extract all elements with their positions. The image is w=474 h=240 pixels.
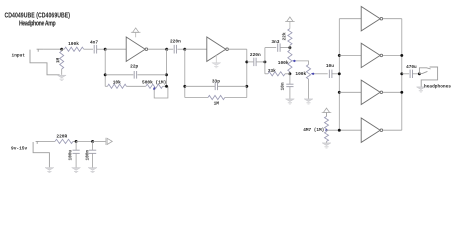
node obus U4 <box>400 54 403 57</box>
ground under C11 <box>88 168 97 173</box>
capacitor C3 220n <box>174 45 176 54</box>
wire U6 out <box>383 129 402 131</box>
label 220n (C3) <box>170 39 181 45</box>
wire bus to U5 <box>339 91 361 93</box>
label 100n (C11) <box>86 150 91 161</box>
node A <box>60 48 63 51</box>
svg-text:33k: 33k <box>268 68 276 74</box>
ground below U2 <box>212 55 221 68</box>
wire node D down <box>184 49 186 97</box>
capacitor C5 220n <box>254 58 256 66</box>
wire 1M branch left <box>185 97 208 99</box>
node obus U5 <box>400 91 403 94</box>
title line 2 <box>19 20 56 28</box>
label 4n7 (C1) <box>90 40 98 46</box>
capacitor C1 4n7 <box>94 45 96 54</box>
label 10k (R3) <box>113 80 121 86</box>
label 22k (R5) <box>283 32 288 40</box>
wire bus to U4 <box>339 54 361 56</box>
svg-text:100k: 100k <box>295 71 306 77</box>
wire 22p branch right <box>137 74 166 76</box>
svg-text:10n: 10n <box>281 82 286 90</box>
node obus out <box>400 72 403 75</box>
label 100u (C10) <box>69 150 74 161</box>
ground under R8 <box>322 143 331 148</box>
svg-text:470u: 470u <box>406 65 417 70</box>
op-amp U4 inverter <box>361 43 382 67</box>
wire R2 to C1 <box>84 48 93 50</box>
ground under VR3 <box>304 99 313 104</box>
svg-text:CD4049UBE (CD4069UBE): CD4049UBE (CD4069UBE) <box>5 12 71 20</box>
wire obus to C9 <box>402 73 409 75</box>
svg-text:220n: 220n <box>170 39 181 45</box>
wire U4 out <box>383 54 402 56</box>
resistor R5 22k vertical <box>288 29 292 48</box>
label 470u (C9) <box>406 65 417 70</box>
wire U5 out <box>383 91 402 93</box>
op-amp U2 inverter <box>207 37 229 61</box>
svg-text:100k: 100k <box>68 41 79 47</box>
label 220R (R9) <box>56 134 67 140</box>
ground under J3 <box>417 87 426 92</box>
label 4M7 (1M) <box>303 128 324 133</box>
wire C6 to node H <box>280 47 290 49</box>
label 220n (C5) <box>250 52 261 58</box>
capacitor C2 22p <box>134 71 136 79</box>
wire VR1 wiper loop <box>154 86 168 98</box>
svg-text:1M: 1M <box>214 101 220 107</box>
node E2 <box>245 85 248 88</box>
label 100k (VR3) <box>295 71 306 77</box>
capacitor C10 100u vertical <box>73 141 80 167</box>
wire 1M branch right <box>225 97 247 99</box>
wire C9 to node K <box>413 73 420 75</box>
wire node J to input bus <box>327 129 362 131</box>
svg-text:220R: 220R <box>56 134 67 140</box>
wire node C to C3 <box>167 48 174 50</box>
wire U2 output <box>229 48 247 50</box>
svg-text:220n: 220n <box>250 52 261 58</box>
svg-text:500k (1M): 500k (1M) <box>142 80 166 86</box>
label 33p (C4) <box>212 78 220 84</box>
node C3 <box>165 85 168 88</box>
capacitor C4 33p <box>215 83 217 91</box>
VR1 wiper arrow <box>153 87 156 91</box>
wire node F to C5 <box>247 61 254 63</box>
wire U3 out <box>383 18 402 20</box>
resistor R8 4M7 lower <box>325 130 329 143</box>
label 500k (1M) (VR1) <box>142 80 166 86</box>
svg-text:33p: 33p <box>212 78 220 84</box>
potentiometer VR1 500k <box>146 84 167 88</box>
node C <box>165 48 168 51</box>
node B <box>104 48 107 51</box>
wire C3 to node D <box>177 48 184 50</box>
wire node M to V+ arrow <box>93 140 106 142</box>
svg-text:100n: 100n <box>86 150 91 161</box>
svg-text:10u: 10u <box>326 63 334 69</box>
label 22p (C2) <box>130 64 138 70</box>
wire 22p branch left <box>105 74 133 76</box>
wire C1 to node B <box>97 48 106 50</box>
wire bus to U3 <box>339 18 361 20</box>
label 100k (R2) <box>68 41 79 47</box>
node B2 <box>104 73 107 76</box>
svg-text:4n7: 4n7 <box>90 40 98 46</box>
node D <box>183 48 186 51</box>
V+ arrow above U1 <box>131 28 141 37</box>
svg-text:100u: 100u <box>69 150 74 161</box>
node H <box>288 46 291 49</box>
wire node D to U2 input <box>185 48 207 50</box>
op-amp U6 inverter <box>361 118 382 142</box>
node G <box>263 60 266 63</box>
wire C5 to node G <box>256 61 265 63</box>
wire 33p branch left <box>185 85 215 87</box>
ground under R1 <box>57 75 66 80</box>
label 100k (VR2) <box>278 60 289 66</box>
wire node G vertical <box>264 48 266 74</box>
input jack J1 <box>30 49 60 75</box>
wire U2 out down <box>246 49 248 97</box>
node L <box>75 140 78 143</box>
svg-text:Headphone Amp: Headphone Amp <box>19 20 56 28</box>
resistor R4 1M <box>208 95 225 99</box>
op-amp U5 inverter <box>361 80 382 104</box>
wire node C down <box>166 49 168 86</box>
op-amp U1 inverter <box>126 37 147 61</box>
resistor R9 220R <box>55 139 73 143</box>
node C2 <box>165 73 168 76</box>
label 1M (R1) <box>56 58 61 64</box>
wire VR2 wiper to VR3 <box>296 61 309 65</box>
label 3n3 (C6) <box>271 39 279 45</box>
VR3 wiper arrow <box>311 73 315 76</box>
svg-text:3n3: 3n3 <box>271 39 279 45</box>
resistor R6 33k <box>265 72 290 76</box>
node D2 <box>183 85 186 88</box>
svg-text:4M7 (1M): 4M7 (1M) <box>303 128 324 133</box>
V+ arrow above R5 <box>285 17 295 29</box>
ground under J2 sleeve <box>45 168 54 173</box>
svg-text:22k: 22k <box>283 32 288 40</box>
label 9v-15v <box>11 146 28 152</box>
node I <box>288 72 291 75</box>
svg-text:9v-15v: 9v-15v <box>11 146 28 152</box>
svg-text:headphones: headphones <box>424 84 451 90</box>
wire node G to C6 <box>265 47 276 49</box>
label 10u (C8) <box>326 63 334 69</box>
label 10n (C7) <box>281 82 286 90</box>
wire C8 to input bus <box>332 73 339 75</box>
capacitor C9 470u <box>410 70 412 78</box>
node J blue <box>325 129 327 131</box>
node M <box>91 140 94 143</box>
resistor R7 4M7 upper <box>325 112 329 130</box>
V+ arrow right <box>106 138 112 145</box>
node bus C8 <box>338 72 341 75</box>
node bus U6 <box>338 129 341 132</box>
node K <box>418 72 421 75</box>
wire input tip to node A <box>44 48 62 50</box>
resistor R3 10k <box>105 84 126 88</box>
capacitor C11 100n vertical <box>89 141 96 167</box>
wire R9 to node L <box>73 140 76 142</box>
capacitor C7 10n vertical <box>286 74 293 99</box>
wire node B down <box>104 49 106 86</box>
node bus U5 <box>338 91 341 94</box>
V+ arrow above R7 <box>322 108 332 116</box>
wire R3 to VR1 <box>126 85 145 87</box>
wire U1 output to node C <box>148 48 167 50</box>
resistor R1 1M vertical <box>60 49 64 75</box>
wire 33p branch right <box>218 85 247 87</box>
headphone jack J3 body <box>421 67 437 87</box>
power jack J2 <box>33 141 49 167</box>
output bus <box>401 19 403 131</box>
label 1M (R4) <box>214 101 220 107</box>
VR2 wiper arrow <box>292 60 296 63</box>
label headphones <box>424 84 451 90</box>
ground under C10 <box>72 168 81 173</box>
svg-text:22p: 22p <box>130 64 138 70</box>
label 33k (R6) <box>268 68 276 74</box>
capacitor C6 3n3 <box>278 43 280 51</box>
input bus <box>338 19 340 131</box>
wire J2 tip to R9 <box>40 140 55 142</box>
wire VR3 wiper to C8 <box>314 73 327 75</box>
wire node L to node M <box>76 140 93 142</box>
label input <box>12 52 26 58</box>
headphone jack J3 contacts <box>419 68 430 74</box>
wire node B to U1 input <box>105 48 126 50</box>
svg-text:input: input <box>12 52 26 58</box>
op-amp U3 inverter <box>361 7 382 31</box>
potentiometer VR2 100k vertical <box>288 48 292 74</box>
svg-text:100k: 100k <box>278 60 289 66</box>
capacitor C8 10u <box>329 70 332 78</box>
node F <box>245 60 248 63</box>
ground under C7 <box>286 99 295 104</box>
potentiometer VR3 100k vertical <box>306 65 310 99</box>
node bus U4 <box>338 54 341 57</box>
svg-text:1M: 1M <box>56 58 61 64</box>
resistor R2 100k <box>62 47 84 51</box>
title line 1 <box>5 12 71 20</box>
